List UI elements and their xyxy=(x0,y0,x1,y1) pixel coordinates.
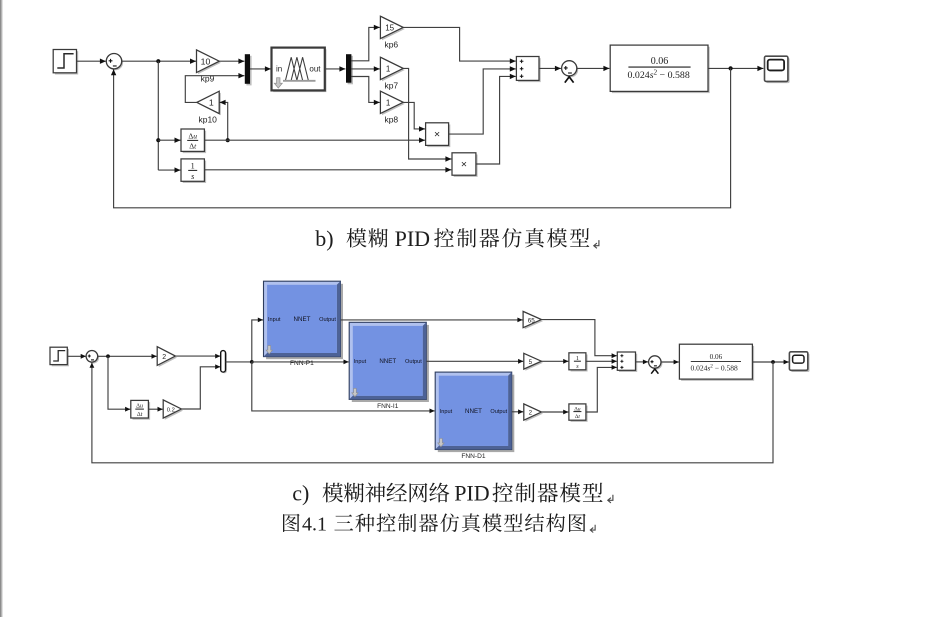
wire mux M1 to fuzzy controller xyxy=(250,66,271,71)
svg-text:kp8: kp8 xyxy=(384,115,398,125)
svg-text:Δt: Δt xyxy=(137,412,143,418)
svg-text:Input: Input xyxy=(268,317,281,323)
wire integrator to sum block input 2 (diagram c) xyxy=(586,359,617,364)
svg-text:×: × xyxy=(461,159,467,171)
wire fuzzy controller to demux D1 xyxy=(325,66,346,71)
gain kp7 xyxy=(380,57,404,81)
svg-text:0.024s2 − 0.588: 0.024s2 − 0.588 xyxy=(628,68,690,81)
derivative block du/dt (diagram c) xyxy=(131,400,150,419)
NNET block FNN-D1 xyxy=(435,372,514,460)
step source block (diagram b) xyxy=(53,50,78,75)
integrator block 1/s (diagram c) xyxy=(569,353,588,372)
NNET block FNN-P1 xyxy=(264,281,344,367)
gain kp8 xyxy=(380,91,404,115)
wire derivative to gain 0.2 xyxy=(148,407,162,412)
svg-text:1: 1 xyxy=(209,98,214,108)
gain kp10 (left pointing) xyxy=(197,91,221,115)
gain block 5 xyxy=(524,353,543,370)
svg-text:0.06: 0.06 xyxy=(651,56,669,67)
svg-text:kp6: kp6 xyxy=(384,40,398,50)
wire demux out3 to gain kp8 xyxy=(351,77,379,106)
wire gain 0.2 to mux C input 2 xyxy=(181,364,220,409)
step source block (diagram c) xyxy=(50,347,69,366)
label kp7 xyxy=(384,81,398,91)
transfer function G2 xyxy=(679,344,754,381)
svg-text:FNN-P1: FNN-P1 xyxy=(290,360,314,367)
svg-text:Input: Input xyxy=(354,359,367,365)
gain block 65 xyxy=(523,311,543,329)
caption c xyxy=(292,481,613,506)
svg-text:kp10: kp10 xyxy=(198,114,217,124)
svg-text:c): c) xyxy=(292,481,309,506)
wire kp6 to sum block input 1 xyxy=(403,27,516,63)
svg-text:PID: PID xyxy=(395,226,430,251)
svg-text:0.06: 0.06 xyxy=(710,353,723,361)
summing junction C1 xyxy=(86,351,99,364)
wire C2 to transfer function G2 xyxy=(661,360,679,365)
product block P1 xyxy=(426,123,451,147)
svg-text:5: 5 xyxy=(529,359,533,366)
derivative block du/dt (output stage) xyxy=(569,404,588,422)
wire sum block to summing junction S2 xyxy=(539,66,561,71)
svg-text:FNN-D1: FNN-D1 xyxy=(461,453,486,460)
gain kp9 xyxy=(197,50,221,74)
label kp8 xyxy=(384,115,398,125)
svg-text:0.2: 0.2 xyxy=(167,408,175,414)
svg-text:Δt: Δt xyxy=(575,414,581,420)
label kp9 xyxy=(201,74,215,84)
svg-text:15: 15 xyxy=(385,23,394,32)
svg-text:0.024s2 − 0.588: 0.024s2 − 0.588 xyxy=(691,363,738,372)
svg-text:Δt: Δt xyxy=(189,142,197,151)
feedback wire G2 output to C1 xyxy=(90,362,774,463)
svg-text:out: out xyxy=(309,65,321,74)
svg-text:NNET: NNET xyxy=(379,358,396,365)
summing junction C2 xyxy=(649,356,663,374)
scope block (diagram c) xyxy=(789,352,809,372)
svg-text:2: 2 xyxy=(162,354,166,361)
svg-text:1: 1 xyxy=(191,162,195,171)
wire gain kp9 to mux M1 xyxy=(219,59,244,64)
wire branch down to derivative and integrator xyxy=(156,61,180,173)
svg-text:2: 2 xyxy=(529,409,533,416)
gain block 2 (proportional) xyxy=(157,347,177,367)
wire gain 5 to integrator xyxy=(541,359,568,364)
wire G2 to scope (diagram c) xyxy=(752,360,788,365)
wire kp8 to product P1 input 1 xyxy=(403,102,425,131)
wire step to sum S1 xyxy=(77,59,106,64)
svg-text:kp9: kp9 xyxy=(201,74,215,84)
svg-text:b): b) xyxy=(315,226,333,251)
feedback wire G1 output to S1 xyxy=(111,68,731,207)
svg-text:Output: Output xyxy=(490,409,507,415)
svg-text:s: s xyxy=(191,172,194,181)
svg-text:65: 65 xyxy=(528,317,536,324)
wire demux out2 to gain kp7 xyxy=(351,66,379,71)
wire gain 2 to mux C xyxy=(175,354,220,359)
summing junction S1 xyxy=(106,54,123,71)
label kp6 xyxy=(384,40,398,50)
svg-text:Input: Input xyxy=(440,409,453,415)
wire ADD2 to summing junction C2 xyxy=(636,360,649,365)
wire demux out1 to gain kp6 xyxy=(351,25,379,61)
label kp10 xyxy=(198,114,217,124)
wire derivative to sum block input 3 (diagram c) xyxy=(586,365,617,412)
wire step to sum C1 xyxy=(68,354,86,359)
wire derivative output to product P1 input 2 xyxy=(205,138,426,143)
wire product P1 to sum block input 2 xyxy=(449,66,516,134)
svg-text:1: 1 xyxy=(386,98,391,107)
svg-text:Output: Output xyxy=(319,317,336,323)
svg-text:1: 1 xyxy=(386,64,391,73)
gain kp6 xyxy=(380,16,404,40)
product block P2 xyxy=(452,153,478,177)
svg-text:NNET: NNET xyxy=(465,408,482,415)
wire kp7 to product P2 input 1 xyxy=(403,68,451,161)
integrator block 1/s xyxy=(181,159,206,183)
derivative block du/dt xyxy=(181,129,206,153)
wire FNN-I1 output to gain 5 xyxy=(426,359,523,364)
svg-text:FNN-I1: FNN-I1 xyxy=(377,403,399,410)
sum block ADD2 xyxy=(617,352,637,372)
wire gain 2 to derivative block xyxy=(541,410,568,415)
wire G1 to scope xyxy=(708,66,763,71)
summing junction S2 xyxy=(562,61,579,83)
svg-text:10: 10 xyxy=(201,56,211,66)
NNET block FNN-I1 xyxy=(349,322,429,410)
wire branch down to derivative (diagram c) xyxy=(108,356,130,411)
svg-text:in: in xyxy=(276,65,282,74)
sum block ADD1 xyxy=(516,57,540,83)
page left border xyxy=(0,0,2,617)
caption b xyxy=(315,226,599,251)
demux D1 xyxy=(346,54,353,84)
wire kp10 output loop to mux M1 second input xyxy=(185,73,244,102)
svg-text:NNET: NNET xyxy=(294,316,311,323)
svg-text:4.1: 4.1 xyxy=(302,513,327,535)
wire S1 output to gain kp9 xyxy=(122,59,196,64)
wire derivative output branch up to kp10 input xyxy=(220,100,230,143)
wire gain 65 to sum block input 1 (diagram c) xyxy=(541,320,616,359)
wire FNN-D1 output to gain 2 xyxy=(512,409,524,414)
wire FNN-P1 output to gain 65 xyxy=(340,318,522,323)
svg-text:kp7: kp7 xyxy=(384,81,398,91)
fuzzy logic controller block xyxy=(272,48,327,93)
svg-text:×: × xyxy=(434,129,440,141)
mux C (capsule) xyxy=(221,351,227,374)
caption figure 4.1 xyxy=(283,513,595,535)
svg-text:Output: Output xyxy=(405,359,422,365)
gain block 0.2 xyxy=(163,400,183,420)
transfer function G1 xyxy=(610,45,710,93)
wire C1 to gain 2 xyxy=(98,354,157,359)
wire mux C output fanout to NNET blocks xyxy=(226,318,435,414)
wire integrator output to product P2 input 2 xyxy=(205,167,452,172)
scope block xyxy=(765,56,790,83)
mux M1 xyxy=(245,54,252,85)
svg-text:PID: PID xyxy=(454,481,489,506)
gain block 2 (derivative path) xyxy=(524,404,543,422)
svg-text:Δu: Δu xyxy=(188,131,197,140)
wire S2 to transfer function G1 xyxy=(577,66,610,71)
wire product P2 to sum block input 3 xyxy=(476,74,516,164)
